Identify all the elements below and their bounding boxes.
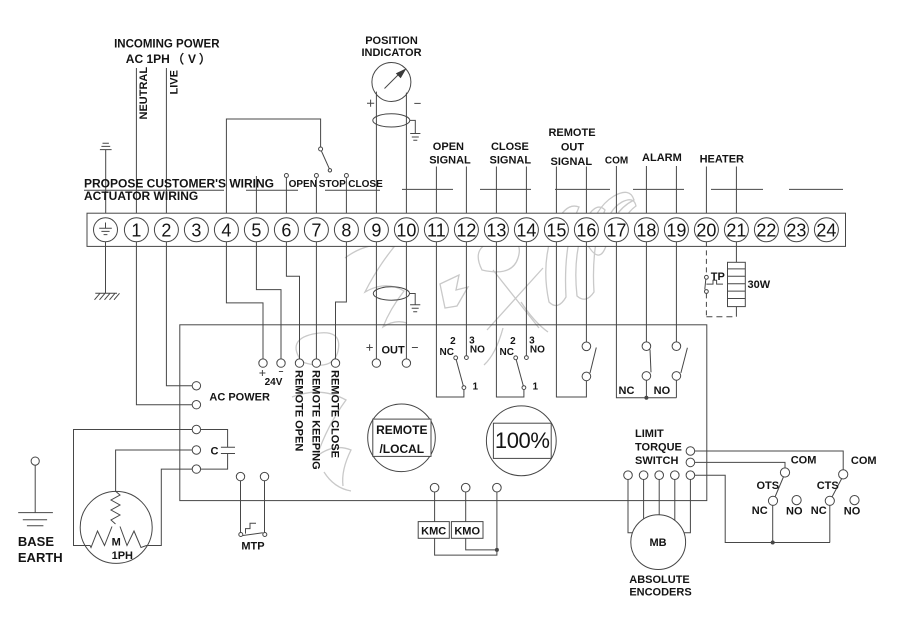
OTS blade: [775, 477, 784, 498]
svg-text:AC POWER: AC POWER: [209, 391, 270, 403]
wire terminal 19 to alarm NO top: [675, 242, 677, 342]
wire motor left winding to capacitor top terminal: [74, 430, 193, 546]
terminal 9: [364, 218, 388, 242]
svg-text:SIGNAL: SIGNAL: [551, 156, 593, 168]
wire alarm NC bottom: [645, 380, 647, 398]
terminal 4: [214, 218, 238, 242]
junction dot KM: [495, 548, 499, 552]
KMC feed terminal: [430, 483, 439, 492]
pushbutton contact STOP: [314, 174, 318, 178]
svg-text:21: 21: [726, 220, 746, 240]
wire LTS b4 to MB encoder: [674, 480, 676, 521]
svg-text:SWITCH: SWITCH: [635, 455, 678, 467]
terminal 3: [184, 218, 208, 242]
svg-text:30W: 30W: [748, 279, 771, 291]
limit torque switch terminal right1: [686, 447, 695, 456]
capacitor terminal bottom: [192, 465, 200, 473]
ground symbol at OUT CT: [410, 305, 420, 312]
actuator internal box outline: [180, 325, 707, 501]
position indicator meter circle: [372, 63, 411, 102]
wire terminal 11 to relay1 common: [436, 242, 464, 397]
dashed wire below TP: [705, 293, 707, 316]
terminal 10: [394, 218, 418, 242]
svg-text:AC 1PH: AC 1PH: [126, 52, 170, 66]
wire terminal 10 to out-: [405, 242, 407, 359]
svg-text:NO: NO: [786, 506, 803, 518]
wire from terminal 5 up: [255, 176, 257, 219]
wire live from terminal 2 up: [165, 68, 167, 219]
wire heater to terminal 20: [705, 167, 707, 219]
wire terminal 7 to remote keeping: [315, 242, 317, 359]
wire terminal 17 to alarm common rail: [616, 242, 676, 398]
terminal 1: [124, 218, 148, 242]
MTP contact left: [239, 533, 243, 537]
remote-out switch top contact: [582, 342, 591, 351]
limit torque switch terminal b4: [671, 471, 680, 480]
svg-text:NO: NO: [654, 385, 671, 397]
svg-text:13: 13: [486, 220, 506, 240]
svg-text:TP: TP: [711, 271, 725, 283]
svg-text:SIGNAL: SIGNAL: [429, 155, 471, 167]
heater resistor 30W: [728, 262, 746, 306]
wire LTS b1 to MB encoder: [628, 480, 632, 533]
svg-text:CTS: CTS: [817, 480, 839, 492]
out- terminal: [402, 359, 410, 367]
svg-text:9: 9: [371, 220, 381, 240]
wire terminal 4 to +24V: [226, 242, 263, 359]
svg-text:LIVE: LIVE: [168, 70, 180, 94]
terminal 5: [244, 218, 268, 242]
stop switch blade: [321, 151, 329, 169]
svg-text:1: 1: [533, 382, 539, 393]
wire terminal 21 to heater: [735, 242, 737, 262]
svg-text:）: ）: [199, 51, 211, 66]
CTS blade: [832, 478, 842, 497]
remote-out switch bottom contact: [582, 372, 591, 381]
wire OTS NC down to rail: [772, 505, 774, 542]
KMO feed terminal: [461, 483, 470, 492]
remote keeping terminal: [312, 359, 320, 367]
capacitor leads: [201, 430, 228, 470]
WATERMARK: [292, 192, 636, 491]
alarm NO top contact: [672, 342, 681, 351]
wire terminal 14 to relay2 NO: [525, 242, 527, 356]
current transformer ellipse top: [373, 114, 410, 127]
svg-text:10: 10: [396, 220, 416, 240]
svg-text:NC: NC: [500, 347, 514, 358]
terminal 15: [544, 218, 568, 242]
svg-text:23: 23: [786, 220, 806, 240]
MTP thermal symbol: [246, 523, 257, 533]
wire OPEN contact to terminal 6: [285, 178, 287, 219]
svg-text:NO: NO: [530, 345, 545, 356]
junction dot alarm rail: [644, 396, 648, 400]
wire STOP contact to terminal 7: [315, 178, 317, 219]
wire terminal 1 to AC power lower: [136, 242, 192, 405]
svg-text:EARTH: EARTH: [18, 550, 63, 565]
minus sign at meter: [414, 102, 420, 104]
minus sign OUT: [412, 347, 418, 349]
svg-text:20: 20: [696, 220, 716, 240]
earth terminal symbol: [99, 223, 112, 235]
limit torque switch terminal b5: [686, 471, 695, 480]
OTS NO contact: [792, 496, 801, 505]
limit torque switch terminal b1: [624, 471, 633, 480]
svg-text:REMOTE OPEN: REMOTE OPEN: [293, 370, 305, 451]
motor common terminal: [192, 446, 200, 454]
MTP contact right: [263, 533, 267, 537]
relay2 NO contact: [525, 356, 529, 360]
terminal 23: [784, 218, 808, 242]
svg-text:1: 1: [131, 220, 141, 240]
wire motor top winding to AC middle terminal: [116, 450, 193, 491]
svg-text:LIMIT: LIMIT: [635, 428, 664, 440]
svg-text:（: （: [172, 51, 184, 66]
svg-text:NC: NC: [752, 505, 768, 517]
svg-text:KMC: KMC: [421, 526, 446, 538]
wire from terminal 4 up to stop switch: [226, 119, 320, 219]
svg-text:4: 4: [221, 220, 231, 240]
limit torque switch terminal b3: [655, 471, 664, 480]
boundary dashed line customer/actuator: [84, 189, 380, 191]
wire meter right to terminal 10: [405, 93, 407, 219]
svg-text:22: 22: [756, 220, 776, 240]
wire CTS NC down to rail: [829, 505, 831, 542]
svg-text:COM: COM: [605, 156, 628, 167]
wire open signal to terminal 12: [465, 167, 467, 219]
svg-text:NO: NO: [844, 506, 861, 518]
wire KMC bottom: [435, 538, 497, 555]
MTP terminal left: [236, 472, 244, 480]
wire heater bottom: [735, 307, 737, 317]
pushbutton contact OPEN: [284, 174, 288, 178]
wire alarm to terminal 18: [645, 166, 647, 219]
wire neutral from terminal 1 up: [135, 68, 137, 219]
MB encoder circle: [631, 515, 686, 570]
100% indicator circle: [486, 406, 556, 476]
svg-text:ENCODERS: ENCODERS: [629, 587, 691, 599]
svg-text:12: 12: [456, 220, 476, 240]
svg-text:CLOSE: CLOSE: [348, 179, 383, 190]
svg-text:MTP: MTP: [241, 541, 264, 553]
dashed wire TP to heater bottom: [706, 316, 736, 318]
svg-text:COM: COM: [851, 455, 877, 467]
terminal 12: [454, 218, 478, 242]
MTP blade: [243, 533, 263, 536]
KMC coil box: [418, 522, 449, 539]
wire terminal 18 to alarm NC top: [645, 242, 647, 342]
+24V terminal: [259, 359, 267, 367]
wire to KMC coil: [434, 492, 436, 522]
svg-text:HEATER: HEATER: [700, 153, 744, 165]
thermostat TP upper contact: [705, 275, 709, 279]
svg-text:OPEN: OPEN: [433, 141, 464, 153]
wire terminal 16 to remote-out switch top: [585, 242, 587, 342]
meter needle arrowhead: [396, 68, 407, 78]
relay1 common contact: [462, 386, 466, 390]
svg-text:CLOSE: CLOSE: [491, 141, 529, 153]
terminal 14: [514, 218, 538, 242]
wire alarm NO bottom: [675, 380, 677, 398]
MTP terminal right: [260, 472, 268, 480]
remote close terminal: [331, 359, 339, 367]
current transformer ellipse at OUT: [373, 287, 409, 300]
svg-text:14: 14: [516, 220, 536, 240]
stop switch upper contact: [319, 147, 323, 151]
relay2 NC contact: [514, 356, 518, 360]
alarm NO bottom contact: [672, 372, 681, 381]
out+ terminal: [372, 359, 380, 367]
svg-text:NC: NC: [440, 347, 454, 358]
svg-text:18: 18: [636, 220, 656, 240]
svg-text:ABSOLUTE: ABSOLUTE: [629, 574, 690, 586]
earth terminal: [94, 218, 118, 242]
svg-text:2: 2: [450, 336, 456, 347]
terminal 24: [814, 218, 838, 242]
svg-text:REMOTE KEEPING: REMOTE KEEPING: [310, 370, 322, 470]
relay1 NC contact: [454, 356, 458, 360]
remote open terminal: [295, 359, 303, 367]
plus sign 24V: [259, 370, 265, 376]
svg-text:24V: 24V: [265, 377, 283, 388]
relay2 common contact: [522, 386, 526, 390]
100% box: [493, 423, 551, 458]
svg-text:V: V: [188, 52, 196, 66]
svg-text:OTS: OTS: [757, 480, 780, 492]
svg-text:19: 19: [666, 220, 686, 240]
alarm NO blade: [681, 348, 688, 373]
relay1 blade: [456, 360, 463, 386]
terminal 22: [754, 218, 778, 242]
CTS COM contact: [839, 470, 848, 479]
wire terminal 6 to remote open: [286, 242, 299, 359]
svg-text:COM: COM: [791, 454, 817, 466]
svg-text:REMOTE: REMOTE: [376, 423, 427, 437]
capacitor terminal top: [192, 425, 200, 433]
wire terminal 12 to relay1 NO: [465, 242, 467, 356]
wire KMO bottom: [466, 538, 497, 550]
minus sign 24V: [279, 371, 283, 373]
svg-text:OPEN: OPEN: [289, 179, 317, 190]
terminal 17: [604, 218, 628, 242]
BASE EARTH node circle: [31, 457, 39, 465]
terminal 20: [694, 218, 718, 242]
wire LTS b3 to MB encoder: [658, 480, 660, 515]
svg-text:11: 11: [427, 220, 446, 240]
CTS NO contact: [850, 496, 859, 505]
motor winding right zigzag: [120, 527, 147, 548]
dashed wire terminal 20 to thermostat TP: [705, 242, 707, 275]
svg-text:BASE: BASE: [18, 534, 54, 549]
plus sign OUT: [366, 344, 372, 350]
wire LTS corner to NC rail: [695, 475, 830, 542]
svg-text:NEUTRAL: NEUTRAL: [138, 67, 150, 120]
wire terminal 13 to relay2 common: [496, 242, 524, 397]
terminal 11: [424, 218, 448, 242]
terminal 2: [154, 218, 178, 242]
svg-text:2: 2: [510, 336, 516, 347]
svg-text:OUT: OUT: [382, 345, 406, 357]
OTS COM contact: [780, 468, 789, 477]
wire terminal 5 to -24V: [256, 242, 281, 359]
terminal 21: [724, 218, 748, 242]
svg-text:REMOTE: REMOTE: [548, 127, 595, 139]
svg-text:REMOTE CLOSE: REMOTE CLOSE: [329, 370, 341, 458]
plus sign at meter: [367, 100, 374, 107]
stop switch blade end contact: [328, 169, 331, 172]
wire base earth: [34, 465, 36, 512]
terminal 8: [334, 218, 358, 242]
wire remote out to terminal 16: [585, 167, 587, 219]
svg-text:3: 3: [191, 220, 201, 240]
capacitor C plates: [221, 447, 235, 453]
wire CLOSE contact to terminal 8: [345, 178, 347, 219]
relay1 NO contact: [465, 356, 469, 360]
svg-text:NC: NC: [619, 385, 635, 397]
svg-text:C: C: [211, 446, 219, 458]
svg-text:MB: MB: [649, 537, 666, 549]
wire LTS to OTS COM: [695, 462, 785, 468]
wire terminal 9 to out+: [375, 242, 377, 359]
terminal 7: [304, 218, 328, 242]
svg-text:ALARM: ALARM: [642, 152, 682, 164]
KMO coil box: [451, 522, 483, 539]
terminal 16: [574, 218, 598, 242]
svg-text:NO: NO: [470, 345, 485, 356]
wire common feed down: [496, 492, 498, 550]
ground symbol at CT: [410, 134, 420, 141]
limit torque switch terminal b2: [639, 471, 648, 480]
wire OUT CT to ground: [410, 294, 416, 305]
svg-text:OUT: OUT: [561, 142, 585, 154]
svg-text:6: 6: [281, 220, 291, 240]
svg-text:M: M: [112, 536, 121, 548]
thermostat lower contact: [705, 290, 709, 294]
REMOTE/LOCAL box: [373, 419, 431, 456]
OTS NC contact: [768, 496, 777, 505]
AC power terminal upper: [192, 382, 200, 390]
wire to KMO coil: [465, 492, 467, 522]
svg-text:8: 8: [341, 220, 351, 240]
pushbutton contact CLOSE: [344, 174, 348, 178]
MTP wires down: [241, 481, 265, 533]
wire alarm to terminal 19: [675, 166, 677, 219]
thermostat symbol: [706, 280, 723, 284]
svg-text:17: 17: [606, 220, 626, 240]
terminal 13: [484, 218, 508, 242]
svg-text:7: 7: [311, 220, 321, 240]
wire open signal to terminal 11: [435, 167, 437, 219]
motor circle M 1PH: [80, 491, 152, 563]
svg-text:15: 15: [546, 220, 566, 240]
wire terminal 2 to AC power upper: [166, 242, 192, 386]
svg-text:KMO: KMO: [454, 526, 480, 538]
relay2 blade: [516, 360, 523, 386]
terminal strip outline: [87, 213, 846, 246]
common feed terminal: [493, 483, 502, 492]
limit torque switch terminal right2: [686, 458, 695, 467]
wire meter left to terminal 9: [375, 92, 377, 219]
terminal 6: [274, 218, 298, 242]
wire motor right winding to capacitor bottom terminal: [147, 469, 193, 545]
wire heater to terminal 21: [735, 167, 737, 219]
svg-text:1PH: 1PH: [112, 550, 133, 562]
alarm NC top contact: [642, 342, 651, 351]
meter needle: [385, 72, 402, 89]
-24V terminal: [277, 359, 285, 367]
wire terminal 15 to remote-out switch bottom: [556, 242, 586, 397]
wire remote out to terminal 15: [555, 167, 557, 219]
wire LTS b2 to MB encoder: [643, 480, 645, 519]
svg-text:STOP: STOP: [319, 179, 346, 190]
wire terminal 8 to remote close: [336, 242, 347, 359]
base earth ground symbol: [18, 513, 53, 526]
CTS NC contact: [825, 496, 834, 505]
svg-text:24: 24: [816, 220, 836, 240]
wire com to terminal 17: [615, 166, 617, 219]
earth symbol above terminal strip: [100, 143, 112, 218]
svg-text:POSITION: POSITION: [365, 35, 418, 47]
svg-text:SIGNAL: SIGNAL: [490, 155, 532, 167]
svg-text:2: 2: [161, 220, 171, 240]
junction dot NC rail: [771, 541, 775, 545]
svg-text:ACTUATOR WIRING: ACTUATOR WIRING: [84, 189, 198, 203]
REMOTE/LOCAL selector circle: [368, 404, 436, 472]
svg-text:TORQUE: TORQUE: [635, 442, 682, 454]
svg-text:1: 1: [473, 382, 479, 393]
wire LTS to CTS COM: [695, 451, 844, 470]
motor winding left zigzag: [90, 527, 112, 548]
remote-out switch blade: [590, 348, 596, 374]
alarm NC bottom contact: [642, 372, 651, 381]
motor winding top zigzag: [111, 491, 120, 524]
wire close signal to terminal 13: [495, 167, 497, 219]
terminal 19: [664, 218, 688, 242]
svg-text:INCOMING POWER: INCOMING POWER: [114, 39, 220, 51]
wire CT to ground: [410, 120, 416, 133]
svg-text:5: 5: [251, 220, 261, 240]
wire LTS b5 to MB encoder: [684, 480, 690, 533]
AC power terminal lower: [192, 401, 200, 409]
terminal 18: [634, 218, 658, 242]
svg-text:INDICATOR: INDICATOR: [361, 47, 421, 59]
wire close signal to terminal 14: [525, 167, 527, 219]
svg-text:NC: NC: [811, 505, 827, 517]
alarm NC blade: [650, 350, 651, 373]
svg-text:16: 16: [576, 220, 596, 240]
thermostat blade: [705, 279, 706, 289]
wire earth terminal down: [105, 242, 107, 293]
svg-text:100%: 100%: [495, 428, 550, 453]
svg-text:/LOCAL: /LOCAL: [379, 442, 424, 456]
chassis ground symbol: [95, 293, 120, 300]
